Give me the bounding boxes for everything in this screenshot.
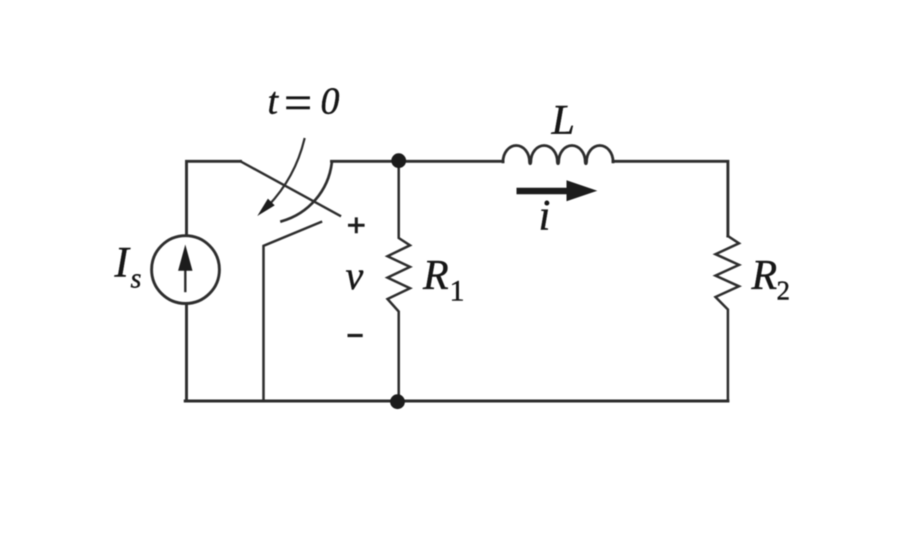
node dot top (391, 153, 406, 168)
current source circle Is (152, 236, 220, 304)
resistor R2 zigzag (716, 236, 740, 401)
wire top-left (source to switch pivot) (187, 161, 241, 235)
current source arrow shaft (184, 263, 186, 291)
svg-text:v: v (346, 253, 364, 298)
current i arrow (517, 180, 598, 201)
resistor R1 zigzag with leads (388, 161, 411, 401)
wire bottom rail (185, 400, 728, 403)
current source arrowhead (178, 245, 192, 271)
svg-text:2: 2 (777, 276, 791, 306)
svg-text:0: 0 (321, 81, 340, 123)
node dot bottom (390, 394, 405, 409)
svg-text:I: I (114, 240, 131, 287)
svg-text:R: R (422, 253, 449, 299)
t=0 pointer arrowhead (257, 199, 274, 216)
switch blade (241, 161, 340, 215)
svg-text:1: 1 (450, 275, 465, 308)
svg-text:R: R (751, 253, 778, 299)
wire middle branch + switch fixed contact (264, 222, 322, 401)
switch travel arc (282, 163, 332, 222)
wire left-bottom (source to bottom rail) (185, 304, 188, 401)
svg-text:t: t (268, 81, 280, 123)
label minus (348, 334, 363, 337)
svg-text:s: s (131, 264, 142, 295)
svg-text:=: = (281, 75, 315, 131)
wire top-right (inductor to R2) (613, 161, 728, 236)
label + (348, 217, 365, 233)
svg-text:L: L (551, 98, 575, 144)
inductor L coil (503, 146, 613, 164)
t=0 pointer curved arrow (268, 139, 304, 206)
wire top-middle (switch to R1 node to inductor) (332, 160, 504, 163)
svg-text:i: i (539, 193, 551, 240)
